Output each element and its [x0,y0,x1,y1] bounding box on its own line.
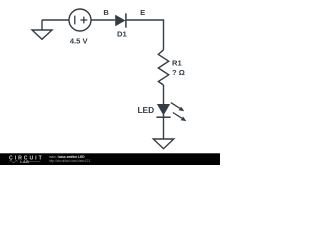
LED D2 [156,104,170,117]
ground GND2 [153,139,173,149]
diode D1 [115,13,126,27]
LED light arrow 2 [173,113,187,122]
svg-text:http://circuitlab.com/c/abc123: http://circuitlab.com/c/abc123 [49,159,91,163]
wire D1 to corner and down to R1 [126,20,164,50]
svg-text:? Ω: ? Ω [172,68,185,77]
svg-text:B: B [103,8,109,17]
LED light arrow 1 [171,103,185,112]
wire R1 to LED [163,85,165,104]
watermark bar [0,153,220,165]
svg-text:R1: R1 [172,59,182,68]
svg-text:LED: LED [137,105,154,115]
svg-text:E: E [140,8,145,17]
ground GND1 [32,20,52,39]
watermark logo CIRCUIT LAB [9,156,44,164]
svg-text:D1: D1 [117,29,127,38]
svg-text:LAB: LAB [20,160,29,164]
resistor R1 [158,50,168,85]
voltage source V1 [69,9,91,31]
wire V1 to D1 [91,19,115,21]
wire ground to V1 [42,19,69,21]
wire LED to ground [163,117,165,139]
svg-text:4.5 V: 4.5 V [70,37,89,46]
